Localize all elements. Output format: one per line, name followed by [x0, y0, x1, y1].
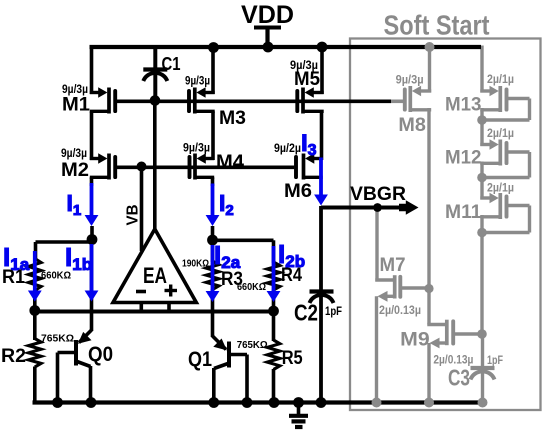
wire EA plus input stub — [167, 303, 171, 312]
ground rail — [33, 400, 488, 404]
svg-text:M11: M11 — [445, 201, 482, 223]
wire I2 arrow to node — [211, 226, 215, 262]
node Q0 emitter ground junction — [86, 397, 97, 408]
wire M5-M6 node down: current I3 — [319, 158, 323, 197]
node M7 source ground junction — [372, 398, 382, 408]
svg-text:VB: VB — [125, 205, 142, 226]
wire M3 drain to M4 source — [211, 111, 215, 160]
resistor R2 — [29, 339, 42, 368]
node VB tap junction — [137, 162, 147, 172]
current arrow I2b — [272, 246, 276, 293]
svg-text:190KΩ: 190KΩ — [182, 258, 209, 270]
svg-text:9µ/3µ: 9µ/3µ — [62, 84, 88, 96]
wire M7 source to ground — [375, 296, 378, 402]
svg-text:9µ/3µ: 9µ/3µ — [396, 75, 424, 87]
VDD supply rail — [90, 45, 482, 49]
wire R3 bottom — [211, 289, 215, 312]
wire C2 stem from VBGR — [319, 206, 323, 292]
wire VB tap down to EA — [140, 167, 144, 252]
node C1 bottom / gate rail junction — [150, 95, 161, 106]
wire chain node M12-M11 — [480, 162, 483, 200]
transistor M6 — [312, 157, 323, 160]
svg-text:M7: M7 — [380, 254, 406, 276]
power symbol VDD — [265, 28, 269, 46]
svg-text:Q0: Q0 — [88, 343, 113, 366]
svg-text:VBGR: VBGR — [350, 183, 406, 205]
wire M8 drain down to M7 gate node and M9 drain — [427, 108, 430, 325]
node VDD stem junction — [263, 42, 274, 53]
svg-text:M3: M3 — [219, 107, 246, 129]
current arrow I1b — [90, 244, 94, 292]
wire M8 source to VDD rail — [428, 46, 431, 93]
svg-text:R4: R4 — [281, 264, 302, 286]
node M9 gate / C3 junction — [477, 329, 487, 339]
svg-text:9µ/3µ: 9µ/3µ — [290, 60, 318, 72]
wire M1 drain to M2 source — [90, 111, 94, 160]
wire branch to R1 — [36, 240, 93, 244]
node C3 ground junction — [478, 398, 488, 408]
transistor M1 — [90, 91, 101, 94]
transistor M8 — [419, 89, 431, 92]
wire R5 top — [272, 311, 276, 341]
svg-text:EA: EA — [143, 263, 167, 288]
svg-text:Q1: Q1 — [188, 348, 212, 371]
transistor Q1 — [211, 312, 215, 338]
wire chain node M11 down to M9 gate node — [480, 215, 483, 336]
wire chain node M13-M12 — [480, 108, 483, 146]
VBGR output arrow — [399, 200, 419, 215]
wire EA output to gate rail — [153, 101, 157, 231]
wire I1b down to input rail — [90, 240, 94, 312]
EA minus input mark — [136, 290, 146, 294]
svg-text:660KΩ: 660KΩ — [237, 281, 266, 293]
node I1 branch junction — [87, 234, 98, 245]
wire VBGR output line — [321, 206, 404, 210]
svg-text:C3: C3 — [448, 365, 470, 391]
node M7 gate junction — [424, 284, 433, 293]
svg-text:2µ/1µ: 2µ/1µ — [487, 74, 514, 86]
op-amp EA triangle — [113, 229, 196, 303]
node I2 branch junction — [207, 235, 218, 246]
wire M12 gate diode loop — [507, 150, 530, 153]
node M8 branch junction — [425, 42, 435, 52]
wire C1 bottom to gate rail — [153, 74, 157, 101]
wire M9 gate to C3 node — [453, 332, 482, 335]
svg-text:M4: M4 — [216, 151, 244, 173]
resistor R5 — [267, 340, 280, 370]
svg-text:9µ/3µ: 9µ/3µ — [61, 148, 87, 160]
svg-text:R2: R2 — [1, 345, 26, 367]
wire R5 bottom to ground — [272, 369, 276, 403]
transistor M5 — [312, 91, 324, 94]
svg-text:M8: M8 — [398, 114, 426, 136]
wire M5 source from rail — [320, 47, 324, 94]
transistor M7 — [375, 278, 394, 281]
node M7 drain on VBGR line — [373, 203, 382, 212]
node C2 ground junction — [316, 397, 327, 408]
svg-text:M13: M13 — [445, 94, 482, 116]
wire M4 drain down (I2 branch) — [211, 177, 215, 186]
gate rail VB upper (M1 M3 M5 to M8) — [115, 100, 391, 104]
transistor M4 — [204, 157, 215, 160]
svg-text:765KΩ: 765KΩ — [41, 333, 74, 345]
wire M2 drain down (I1 branch) — [90, 177, 94, 186]
wire I1 arrow to node — [90, 226, 94, 241]
wire left rail to M1 source — [90, 45, 94, 94]
wire M11 gate diode loop — [507, 204, 530, 207]
svg-text:I1: I1 — [67, 190, 82, 219]
node M11 drain junction — [477, 228, 487, 238]
transistor Q0 — [90, 312, 94, 332]
transistor M2 — [90, 157, 101, 160]
svg-text:9µ/3µ: 9µ/3µ — [185, 76, 210, 88]
svg-text:VDD: VDD — [241, 1, 294, 29]
wire C2 bottom to ground — [319, 296, 323, 403]
wire EA minus input stub — [140, 303, 144, 312]
current arrow I2 — [211, 184, 215, 217]
wire M13 chain from VDD rail corner down — [480, 46, 483, 93]
svg-text:9µ/2µ: 9µ/2µ — [274, 143, 301, 155]
svg-text:C1: C1 — [162, 53, 181, 74]
svg-text:R1: R1 — [2, 266, 25, 288]
svg-text:765KΩ: 765KΩ — [237, 339, 268, 351]
resistor R3 — [206, 261, 219, 290]
wire M7 gate to node — [400, 286, 429, 289]
wire R2 top — [33, 311, 37, 341]
gate rail lower (M2 M4 M6) — [115, 166, 294, 170]
svg-text:I2: I2 — [219, 190, 234, 219]
svg-text:I1b: I1b — [65, 242, 92, 274]
svg-text:2µ/0.13µ: 2µ/0.13µ — [379, 305, 421, 317]
svg-text:1pF: 1pF — [325, 306, 342, 318]
wire R1 bottom — [33, 289, 37, 312]
transistor M9 — [427, 323, 447, 326]
wire C3 top stem — [481, 334, 484, 368]
svg-text:I3: I3 — [301, 130, 317, 159]
svg-text:C2: C2 — [294, 300, 318, 326]
svg-text:M6: M6 — [284, 180, 312, 202]
capacitor C2 — [310, 289, 334, 293]
wire M7 drain from VBGR — [375, 206, 378, 282]
svg-text:R5: R5 — [282, 347, 303, 369]
ground symbol — [297, 403, 301, 415]
node R1 bottom junction — [29, 305, 40, 316]
capacitor C3 — [471, 366, 495, 370]
svg-text:2µ/1µ: 2µ/1µ — [487, 183, 514, 195]
capacitor C1 stem from rail — [153, 45, 157, 70]
transistor M11 — [480, 196, 491, 199]
svg-text:M2: M2 — [61, 159, 89, 181]
EA plus input mark — [165, 289, 178, 292]
wire M9 source to ground — [427, 343, 430, 403]
svg-text:Soft Start: Soft Start — [384, 10, 490, 41]
resistor R1 — [29, 259, 42, 291]
svg-text:M1: M1 — [62, 94, 90, 116]
wire R4 bottom — [272, 290, 276, 312]
svg-text:2µ/1µ: 2µ/1µ — [487, 128, 514, 140]
current arrow I1a — [33, 251, 37, 292]
current arrow I2a — [211, 245, 215, 293]
transistor M3 — [203, 91, 214, 94]
node R4 bottom junction — [268, 306, 279, 317]
transistor M13 — [480, 89, 491, 92]
node Q0 base ground junction — [52, 397, 63, 408]
wire EA input rail — [33, 310, 274, 314]
current arrow I1 — [90, 183, 94, 217]
svg-text:M9: M9 — [400, 329, 430, 351]
svg-text:9µ/3µ: 9µ/3µ — [183, 143, 210, 155]
wire M3 source from rail — [211, 48, 215, 95]
resistor R4 — [267, 262, 280, 290]
node M13 drain junction — [477, 115, 487, 125]
node Q1 emitter ground junction — [208, 397, 219, 408]
transistor M12 — [480, 143, 491, 146]
node M12 drain junction — [477, 173, 487, 183]
node M3 source junction — [208, 42, 219, 53]
svg-text:M12: M12 — [445, 147, 482, 169]
wire M13 gate diode loop — [507, 97, 530, 100]
svg-text:1pF: 1pF — [487, 355, 503, 367]
soft-start enclosure box — [350, 39, 541, 411]
node M5 source junction — [317, 42, 328, 53]
wire C3 bottom stem to ground — [481, 373, 484, 403]
wire R2 bottom to ground — [33, 367, 37, 403]
node Q1 base ground junction — [242, 397, 253, 408]
node M9 source ground junction — [424, 398, 434, 408]
node R5 ground junction — [269, 397, 280, 408]
wire branch to R4 — [213, 239, 274, 243]
capacitor C1 — [143, 67, 167, 71]
wire M5 drain to M6 source — [320, 111, 324, 160]
node ground symbol junction — [293, 397, 304, 408]
